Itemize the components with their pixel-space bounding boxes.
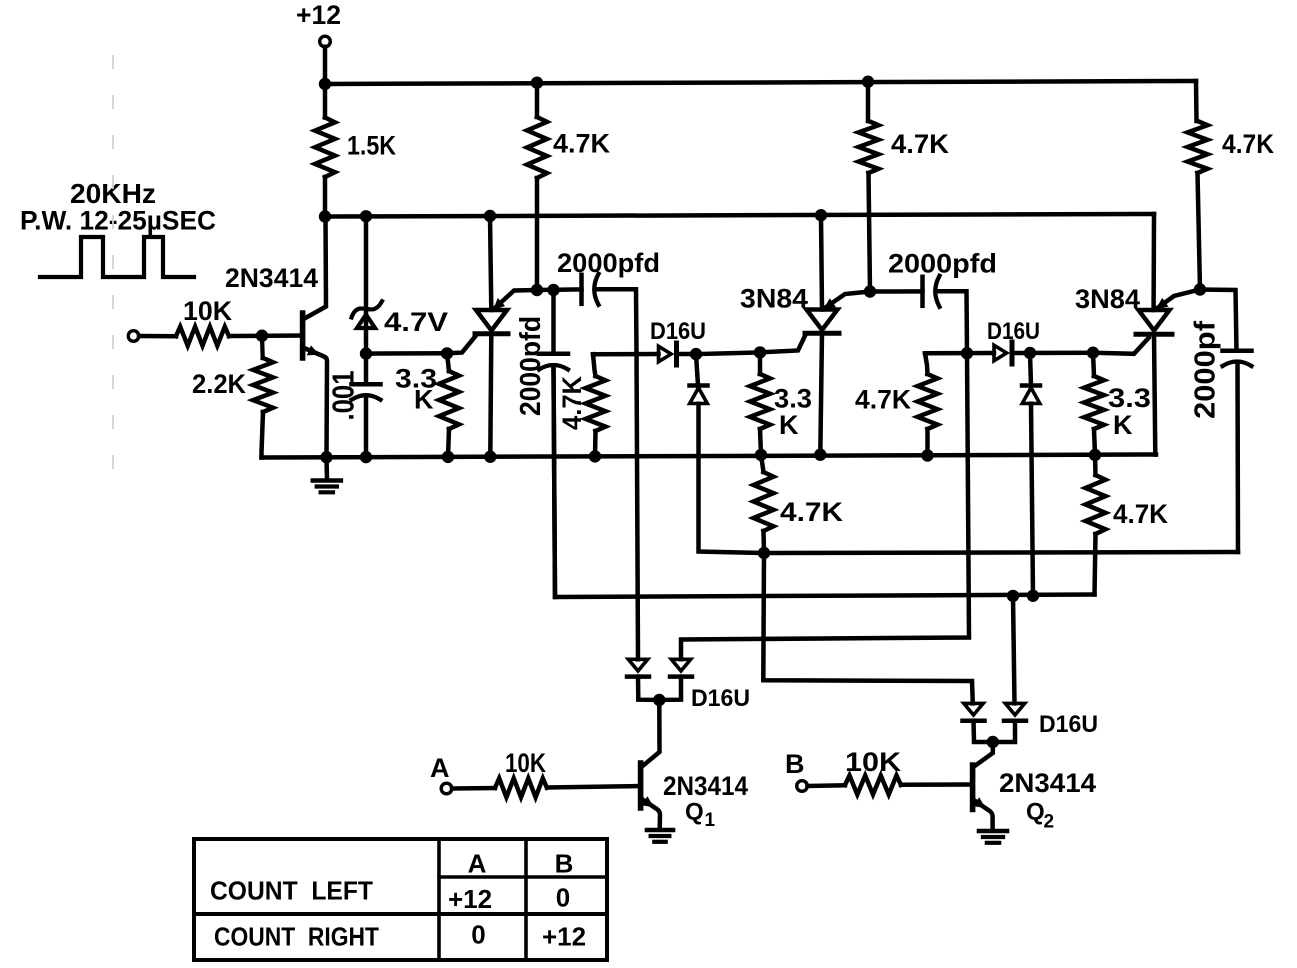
- node stage2 anode: [864, 285, 876, 297]
- svg-text:2000pf: 2000pf: [1190, 320, 1222, 419]
- zener diode 4.7V bar: [352, 301, 383, 317]
- resistor 4.7K mid no2: [918, 374, 938, 429]
- svg-text:P.W. 12-25µSEC: P.W. 12-25µSEC: [20, 206, 216, 236]
- wire diode2 to 3.3K no2: [1012, 350, 1093, 355]
- thyristor SCR1: [476, 310, 507, 331]
- svg-text:0: 0: [471, 920, 485, 950]
- wire node to cross diode1: [696, 354, 698, 385]
- wire L1 to Q1 node: [638, 677, 659, 700]
- transistor Q1 emitter arrow: [641, 796, 654, 807]
- collector bus rail: [325, 214, 1154, 217]
- wire anode nodes: [537, 287, 582, 292]
- svg-text:10K: 10K: [845, 747, 902, 777]
- transistor Q2 collector: [974, 742, 993, 767]
- node gnd / SCR1: [484, 451, 496, 463]
- node gnd / 4.7K mid no1: [589, 450, 601, 462]
- node gnd / 4.7K mid no2: [921, 449, 933, 461]
- capacitor 2000pfd series no1: [579, 275, 584, 304]
- ground symbol main: [324, 457, 329, 480]
- wire rail2 to zener: [364, 216, 369, 353]
- wire rail2 to SCR1: [490, 216, 491, 310]
- svg-text:2.2K: 2.2K: [192, 369, 246, 399]
- resistor R 4.7K far right: [1194, 81, 1199, 121]
- svg-text:Q: Q: [685, 799, 704, 826]
- node rail2 / zener: [360, 210, 372, 222]
- svg-text:3N84: 3N84: [1075, 284, 1140, 314]
- svg-text:+12: +12: [542, 922, 586, 952]
- table frame: [194, 839, 607, 960]
- wire capA to corner: [599, 289, 637, 353]
- resistor 3.3K no1b: [758, 352, 763, 374]
- svg-text:+12: +12: [296, 0, 341, 30]
- wire D16U bus no2 b: [925, 351, 994, 356]
- wire R10K to base node: [229, 333, 302, 338]
- wire D16U bus no2: [925, 353, 928, 374]
- terminal B: [797, 781, 808, 792]
- svg-text:D16U: D16U: [987, 318, 1040, 345]
- table row divider: [194, 912, 607, 916]
- wire 3N84 no2 cathode down: [1154, 334, 1155, 454]
- svg-text:2000pfd: 2000pfd: [515, 316, 547, 416]
- table divider col A: [437, 839, 441, 960]
- svg-text:1: 1: [705, 810, 716, 831]
- node input base: [256, 330, 268, 342]
- wire zener node to 3.3K node: [366, 351, 447, 356]
- 3N84 no2 anode gate wire: [1158, 290, 1200, 308]
- svg-text:COUNT LEFT: COUNT LEFT: [210, 876, 373, 906]
- capacitor 2000pfd series no2: [920, 277, 925, 306]
- wire diode1 to node: [677, 352, 697, 357]
- wire cross diode1 down: [699, 404, 1239, 553]
- svg-text:4.7K: 4.7K: [557, 376, 587, 430]
- svg-text:.001: .001: [326, 371, 361, 421]
- wire 3N84 no1 cathode down: [820, 333, 822, 454]
- ground symbol Q1: [647, 828, 673, 833]
- capacitor 2000pf far right: [1200, 290, 1237, 351]
- svg-text:10K: 10K: [505, 748, 546, 778]
- transistor Q1 emitter: [643, 800, 661, 830]
- svg-text:2N3414: 2N3414: [663, 771, 748, 801]
- transistor Q input emitter arrow: [307, 345, 320, 355]
- node steer2 / drop: [1007, 590, 1019, 602]
- svg-text:10K: 10K: [183, 296, 232, 326]
- terminal +12: [320, 36, 331, 47]
- diode cross no1: [690, 383, 708, 388]
- resistor 3.3K no1: [447, 353, 449, 371]
- node 3.3K no1b top: [754, 346, 766, 358]
- svg-text:Q: Q: [1026, 799, 1045, 826]
- svg-text:4.7K: 4.7K: [1113, 499, 1168, 529]
- svg-text:4.7K: 4.7K: [780, 497, 844, 527]
- 3N84 no2 anode gate arrow: [1156, 298, 1169, 309]
- svg-text:0: 0: [556, 883, 570, 913]
- table divider col B: [524, 839, 528, 960]
- node D16U no1 cathode: [690, 348, 702, 360]
- svg-text:K: K: [779, 410, 799, 440]
- wire stage2 gate: [696, 352, 760, 354]
- capacitor 2000pfd shunt: [551, 290, 556, 354]
- wire capB to corner: [940, 291, 968, 353]
- svg-text:4.7V: 4.7V: [384, 307, 448, 337]
- input terminal: [128, 331, 139, 342]
- svg-text:A: A: [468, 849, 487, 879]
- wire anode to capB: [870, 289, 923, 294]
- top +12 rail: [325, 81, 1196, 84]
- diode cross no2: [1022, 383, 1040, 388]
- table header underline: [439, 875, 607, 879]
- terminal A: [441, 783, 452, 794]
- svg-text:D16U: D16U: [650, 318, 706, 345]
- svg-text:3.3: 3.3: [774, 384, 812, 414]
- transistor Q1 base bar: [638, 763, 644, 808]
- steer bus no2: [554, 366, 1095, 597]
- svg-text:3.3: 3.3: [1108, 383, 1151, 413]
- wire R2 to Q2 node: [993, 721, 1015, 742]
- svg-text:4.7K: 4.7K: [553, 129, 610, 159]
- transistor 3N84 no1: [807, 310, 838, 331]
- wire D16U bus no1 b: [593, 352, 659, 357]
- resistor R5 4.7K: [866, 82, 871, 121]
- wire D16U bus no1: [593, 354, 596, 376]
- diode D16U no1: [659, 346, 672, 362]
- svg-text:D16U: D16U: [1039, 711, 1098, 738]
- resistor R1 1.5K: [323, 84, 328, 118]
- svg-text:K: K: [414, 385, 434, 415]
- wire cross diode2 down: [1031, 404, 1033, 596]
- wire gate to 3N84 no2: [1093, 338, 1149, 354]
- 3N84 no1 anode gate arrow: [824, 298, 837, 309]
- diode D16U no2: [994, 345, 1007, 361]
- node capB line / bus2: [961, 347, 973, 359]
- resistor 2.2K: [260, 336, 265, 358]
- node far right: [1194, 283, 1206, 295]
- transistor Q input 2N3414 base bar: [300, 313, 306, 358]
- wire rail2 corner to 3N84 no2: [1151, 214, 1156, 310]
- wire R1 to Q2 node: [974, 721, 993, 742]
- diode steer L1: [628, 659, 647, 671]
- wire gate to 3N84 no1: [760, 335, 806, 353]
- node stage1 anode b: [547, 284, 559, 296]
- svg-text:2000pfd: 2000pfd: [557, 248, 660, 278]
- wire 10K to Q2 base: [901, 782, 973, 787]
- node top rail / R5: [862, 76, 874, 88]
- svg-text:3N84: 3N84: [740, 284, 808, 314]
- wire L2 to Q1 node: [659, 677, 681, 700]
- resistor 10K input: [176, 327, 229, 346]
- diode steer L2: [671, 659, 690, 671]
- capacitor .001: [364, 354, 369, 385]
- wire node to cross diode2: [1030, 353, 1031, 386]
- wire SCR1 cathode down: [490, 334, 491, 457]
- node top rail / R2: [531, 77, 543, 89]
- diode steer R2: [1005, 703, 1024, 715]
- svg-text:2000pfd: 2000pfd: [888, 249, 997, 279]
- transistor Q1 collector: [642, 700, 660, 767]
- svg-text:2: 2: [1044, 812, 1055, 833]
- node gnd / 3.3K no2: [1089, 449, 1101, 461]
- transistor 3N84 no2: [1139, 310, 1170, 331]
- wire input terminal to R10K: [139, 334, 176, 339]
- ground bus rail: [262, 455, 1157, 458]
- resistor 10K A: [495, 778, 547, 797]
- wire steer2 drop: [1013, 596, 1015, 704]
- wire capA line down: [637, 354, 639, 660]
- svg-text:B: B: [785, 749, 805, 779]
- wire 10K to Q1 base: [547, 786, 641, 788]
- svg-text:4.7K: 4.7K: [1222, 129, 1274, 159]
- svg-text:+12: +12: [448, 884, 492, 914]
- node line A / 4.7K low no1: [758, 547, 770, 559]
- svg-text:4.7K: 4.7K: [891, 129, 949, 159]
- svg-text:4.7K: 4.7K: [855, 385, 911, 415]
- input pulse waveform: [40, 237, 194, 277]
- node rail2 / SCR1: [484, 210, 496, 222]
- wire line A drop no1: [763, 553, 973, 703]
- node Q1 collector: [653, 694, 665, 706]
- svg-text:D16U: D16U: [691, 685, 750, 712]
- node gnd / 3.3K no1b: [755, 449, 767, 461]
- svg-text:K: K: [1113, 410, 1133, 440]
- transistor Q2 emitter arrow: [973, 797, 986, 808]
- zener diode 4.7V triangle: [357, 315, 375, 329]
- resistor 4.7K low no1: [761, 455, 764, 472]
- wire +12 terminal to top rail: [323, 47, 328, 84]
- transistor Q input emitter: [304, 348, 327, 457]
- 3N84 no1 anode gate wire: [826, 292, 871, 308]
- svg-text:B: B: [555, 849, 574, 879]
- wire rail2 to 3N84 no1: [821, 215, 822, 309]
- svg-text:2N3414: 2N3414: [225, 263, 318, 293]
- node top rail / R1: [319, 78, 331, 90]
- node gnd / .001: [360, 451, 372, 463]
- wire A to 10K: [452, 786, 495, 791]
- node rail2 / R1 collector: [319, 210, 331, 222]
- node gnd / 3.3K no1: [442, 451, 454, 463]
- svg-text:2N3414: 2N3414: [999, 768, 1096, 798]
- resistor R2 4.7K: [535, 83, 540, 117]
- svg-text:A: A: [430, 753, 450, 783]
- resistor 4.7K low no2: [1093, 455, 1098, 475]
- ground symbol Q2: [979, 829, 1007, 834]
- node stage1 anode a: [531, 284, 543, 296]
- node zener/.001: [360, 347, 372, 359]
- diode steer R1: [964, 703, 983, 715]
- svg-text:COUNT RIGHT: COUNT RIGHT: [214, 922, 379, 952]
- node rail2 / 3N84 no1: [815, 209, 827, 221]
- SCR1 cathode gate wire: [447, 335, 477, 354]
- wire B to 10K: [808, 783, 846, 788]
- node gnd / 3N84 no1: [814, 449, 826, 461]
- SCR1 anode gate wire: [495, 290, 537, 308]
- resistor 10K B: [845, 776, 901, 795]
- node D16U no2 cathode: [1024, 347, 1036, 359]
- resistor 3.3K no2: [1093, 353, 1094, 376]
- fold crease artifact: [112, 55, 114, 490]
- node Q2 collector: [987, 736, 999, 748]
- wire big vertical no2 down: [681, 353, 969, 659]
- node steer2 / cross diode2: [1027, 590, 1039, 602]
- resistor 4.7K mid no1: [586, 376, 606, 431]
- SCR1 anode gate arrow: [493, 298, 505, 310]
- node 3.3K no1 top: [441, 347, 453, 359]
- transistor Q2 base bar: [970, 765, 976, 810]
- transistor Q input collector: [304, 217, 326, 319]
- svg-text:1.5K: 1.5K: [347, 131, 396, 161]
- transistor Q2 emitter: [975, 801, 993, 831]
- node 3.3K no2 top: [1087, 347, 1099, 359]
- node gnd / emitter: [320, 451, 332, 463]
